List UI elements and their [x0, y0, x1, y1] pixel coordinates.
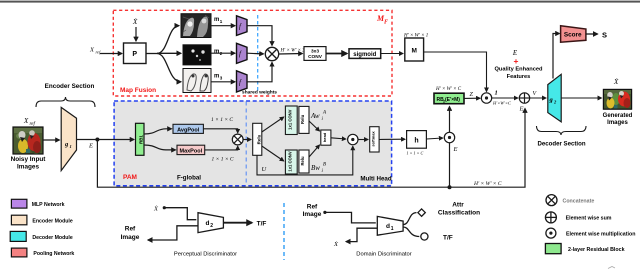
- concat circle 2: [232, 134, 243, 145]
- box head: [321, 130, 331, 145]
- wire relu2 to head: [309, 145, 320, 157]
- svg-text:m: m: [214, 49, 219, 55]
- svg-text:sigmoid: sigmoid: [353, 52, 376, 58]
- node dot: [323, 211, 326, 214]
- discriminator d2: [198, 213, 223, 233]
- legend Pooling: [11, 248, 74, 257]
- svg-text:Multi Head: Multi Head: [360, 176, 392, 183]
- wire Relu to conv bottom: [262, 146, 284, 161]
- svg-text:H′ × W′ × C: H′ × W′ × C: [435, 87, 462, 92]
- svg-text:Ref: Ref: [125, 226, 136, 233]
- svg-text:2-layer Residual Block: 2-layer Residual Block: [568, 247, 625, 253]
- wire m1 to f1: [211, 25, 235, 27]
- svg-text:1: 1: [391, 226, 394, 232]
- PAM inner divider: [245, 102, 247, 186]
- svg-text:Ẋ: Ẋ: [132, 18, 138, 26]
- box 1x1 CONV top: [285, 106, 297, 135]
- svg-text:B: B: [323, 163, 326, 168]
- right legend mult: [546, 228, 636, 238]
- box AvgPool: [173, 124, 203, 133]
- box 3x3 CONV: [304, 47, 326, 61]
- multiply circle 3: [348, 134, 358, 144]
- svg-text:AvgPool: AvgPool: [177, 127, 200, 133]
- wire Xdot to P: [135, 27, 137, 41]
- svg-text:m: m: [214, 74, 219, 80]
- wire RB2 to mult, node Z: [464, 97, 480, 99]
- wire sum to g2, node V: [530, 97, 546, 99]
- diamond attr: [418, 209, 425, 216]
- wire Xdot to d2: [164, 208, 196, 220]
- svg-text:Z: Z: [470, 92, 474, 98]
- wire image to g1: [43, 139, 60, 141]
- svg-text:Images: Images: [607, 120, 628, 126]
- svg-text:m: m: [214, 17, 219, 23]
- svg-text:E: E: [453, 146, 458, 153]
- sum circle: [519, 93, 529, 103]
- wire score to S: [586, 33, 598, 35]
- separator dashed blue: [283, 203, 285, 260]
- svg-text:P: P: [132, 51, 137, 58]
- circle TF: [421, 233, 428, 240]
- wire AvgPool to concat2: [203, 129, 237, 133]
- box Relu main: [253, 123, 262, 155]
- svg-text:1x1 CONV: 1x1 CONV: [287, 151, 292, 171]
- wire g1 to PAM with node E: [77, 138, 135, 150]
- svg-text:Element wise multiplication: Element wise multiplication: [566, 231, 635, 237]
- svg-text:2: 2: [210, 223, 213, 229]
- svg-text:Image: Image: [303, 211, 322, 218]
- svg-text:Encoder Section: Encoder Section: [45, 83, 95, 90]
- svg-text:RB1: RB1: [138, 135, 143, 144]
- mlp f1 trapezoid: [237, 16, 248, 36]
- svg-text:3: 3: [220, 76, 223, 81]
- node dot: [163, 206, 166, 209]
- legend Encoder: [11, 215, 72, 225]
- wire m3 to f3: [211, 81, 235, 83]
- svg-text:Decoder Module: Decoder Module: [32, 235, 72, 241]
- svg-text:softmax: softmax: [371, 130, 376, 146]
- right legend concat: [546, 195, 594, 206]
- multiply circle (h x E): [444, 132, 454, 142]
- noisy input image: [13, 127, 43, 154]
- score trapezoid: [561, 26, 586, 43]
- svg-text:3x3: 3x3: [311, 49, 319, 55]
- svg-text:T/F: T/F: [257, 221, 267, 228]
- wire E bottom long: [97, 109, 525, 190]
- svg-text:Relu: Relu: [256, 134, 261, 144]
- box sigmoid: [349, 49, 381, 59]
- wire riser to RB2 through odot: [449, 107, 451, 188]
- concat circle (maps): [265, 47, 278, 60]
- wire M to mult: [424, 52, 487, 92]
- svg-text:h: h: [414, 138, 418, 145]
- box P: [124, 43, 147, 64]
- svg-text:head: head: [322, 132, 327, 142]
- bottom mark: [608, 267, 615, 269]
- svg-text:1 × 1 × C: 1 × 1 × C: [212, 157, 234, 163]
- wire f1 to concat: [247, 26, 272, 46]
- wire d1 to diamond: [403, 213, 416, 225]
- svg-text:Relu: Relu: [300, 156, 305, 166]
- box Relu top: [299, 106, 309, 133]
- svg-text:Image: Image: [121, 234, 140, 241]
- wire m2 to f2: [211, 52, 235, 54]
- svg-text:Perceptual Discriminator: Perceptual Discriminator: [174, 252, 237, 258]
- map image m2: [183, 45, 211, 65]
- svg-text:Bw: Bw: [311, 164, 320, 172]
- wire MaxPool to concat2: [205, 146, 238, 150]
- wire P fanout: [146, 26, 181, 82]
- residual block RB1: [136, 123, 145, 155]
- svg-text:Element wise sum: Element wise sum: [566, 216, 612, 222]
- svg-text:Ẋ: Ẋ: [153, 206, 159, 213]
- svg-text:Aw: Aw: [310, 112, 320, 120]
- wire head to mult3: [331, 138, 346, 139]
- svg-text:Pooling Network: Pooling Network: [33, 251, 74, 257]
- mlp f3 trapezoid: [237, 71, 248, 92]
- svg-text:PAM: PAM: [123, 174, 137, 181]
- encoder g1 trapezoid: [61, 107, 76, 170]
- shared weights dashed line: [257, 15, 259, 92]
- svg-text:MLP Network: MLP Network: [32, 202, 65, 208]
- svg-text:1 × 1 × C: 1 × 1 × C: [407, 151, 424, 156]
- wire relu1 to head: [309, 121, 320, 131]
- residual block RB2: [434, 93, 464, 104]
- wire d2 to Ref Image: [148, 226, 198, 240]
- box 1x1 CONV bottom: [285, 150, 297, 174]
- wire RB1 to AvgPool: [144, 129, 172, 134]
- box h: [407, 131, 427, 149]
- wire h to mult2: [426, 138, 442, 139]
- svg-text:Concatenate: Concatenate: [563, 198, 595, 204]
- svg-text:Features: Features: [507, 74, 531, 80]
- svg-text:H′ × W′ × C: H′ × W′ × C: [473, 181, 502, 187]
- legend MLP: [11, 199, 64, 208]
- wire softmax to h: [379, 138, 405, 140]
- wire g2 to generated image: [561, 97, 601, 99]
- svg-text:X: X: [23, 117, 29, 125]
- mlp f2 trapezoid: [237, 43, 248, 63]
- wire d2 to TF: [223, 222, 252, 224]
- svg-text:1: 1: [70, 144, 72, 149]
- wire f2 to concat: [247, 52, 264, 55]
- svg-text:MaxPool: MaxPool: [179, 148, 202, 154]
- wire d1 to Xdot: [346, 228, 377, 241]
- svg-text:S: S: [602, 31, 607, 40]
- svg-text:H′×W′×C: H′×W′×C: [492, 101, 512, 106]
- svg-text:V: V: [533, 91, 538, 97]
- wire sigmoid to M: [381, 53, 403, 55]
- decoder g2 trapezoid: [548, 74, 561, 122]
- wire U from Relu to mult3: [257, 146, 353, 175]
- wire concat to conv: [279, 53, 303, 56]
- svg-text:Attr: Attr: [452, 202, 464, 209]
- map image m1: [181, 14, 211, 38]
- wire conv to sigmoid: [326, 53, 347, 55]
- svg-text:Noisy Input: Noisy Input: [11, 156, 47, 163]
- svg-text:ref: ref: [30, 122, 36, 127]
- svg-text:Ẋ: Ẋ: [613, 78, 619, 86]
- svg-text:X: X: [89, 47, 95, 54]
- svg-text:CONV: CONV: [308, 54, 323, 60]
- wire f3 to concat: [247, 62, 272, 81]
- Map Fusion dashed box: [113, 10, 392, 96]
- multiply circle (M x Z): [481, 93, 491, 103]
- wire RB1 to MaxPool: [144, 145, 176, 150]
- svg-text:1x1 CONV: 1x1 CONV: [287, 109, 292, 129]
- svg-text:E: E: [88, 143, 93, 150]
- legend Decoder: [10, 231, 73, 241]
- wire Relu to conv top: [262, 117, 284, 132]
- svg-text:Score: Score: [564, 32, 582, 39]
- svg-text:d: d: [386, 223, 390, 230]
- svg-text:1: 1: [495, 90, 498, 97]
- svg-text:1 × 1 × C: 1 × 1 × C: [211, 117, 233, 123]
- svg-text:M: M: [411, 48, 416, 55]
- box softmax: [370, 127, 379, 152]
- svg-text:T/F: T/F: [443, 235, 453, 242]
- decoder brace: [537, 126, 587, 135]
- svg-text:Domain Discriminator: Domain Discriminator: [356, 251, 411, 257]
- box MaxPool: [177, 145, 205, 154]
- svg-text:F: F: [384, 20, 388, 26]
- svg-text:Encoder Module: Encoder Module: [32, 219, 72, 225]
- wire mult3 to softmax: [358, 139, 368, 141]
- encoder brace: [36, 97, 95, 107]
- PAM region background: [114, 101, 392, 186]
- svg-text:H′ × W′ × 3: H′ × W′ × 3: [280, 49, 306, 54]
- right legend sum: [545, 212, 611, 223]
- svg-text:Ẋ: Ẋ: [333, 241, 339, 248]
- svg-text:Ref: Ref: [307, 204, 318, 211]
- wire Xref to P: [100, 53, 122, 55]
- right legend residual: [545, 244, 624, 254]
- wire d1 to circle: [403, 227, 419, 237]
- svg-text:Relu: Relu: [300, 114, 305, 124]
- generated image: [603, 89, 631, 109]
- svg-text:Generated: Generated: [603, 113, 633, 119]
- svg-text:+: +: [514, 56, 519, 66]
- svg-text:E: E: [519, 106, 524, 113]
- svg-text:shared weights: shared weights: [242, 89, 277, 95]
- svg-text:1: 1: [220, 19, 223, 24]
- svg-text:d: d: [206, 220, 210, 227]
- svg-text:Map Fusion: Map Fusion: [120, 87, 156, 94]
- wire concat2 to Relu: [243, 139, 251, 141]
- svg-text:(E′×M): (E′×M): [445, 97, 460, 103]
- wire mult to sum, node I: [492, 97, 518, 99]
- discriminator d1: [377, 216, 403, 235]
- svg-text:Decoder Section: Decoder Section: [537, 141, 585, 148]
- svg-text:Images: Images: [17, 164, 39, 171]
- quality enhanced features note: [494, 49, 543, 80]
- svg-text:Classification: Classification: [438, 210, 480, 217]
- top rule: [0, 1, 640, 3]
- box Relu bottom: [299, 150, 309, 173]
- wire RefImage to d1: [325, 212, 376, 223]
- wire tap to Score: [553, 34, 560, 79]
- map image m3: [183, 69, 211, 93]
- box M: [405, 38, 424, 61]
- svg-text:F-global: F-global: [177, 175, 201, 182]
- svg-text:Quality Enhanced: Quality Enhanced: [494, 67, 543, 73]
